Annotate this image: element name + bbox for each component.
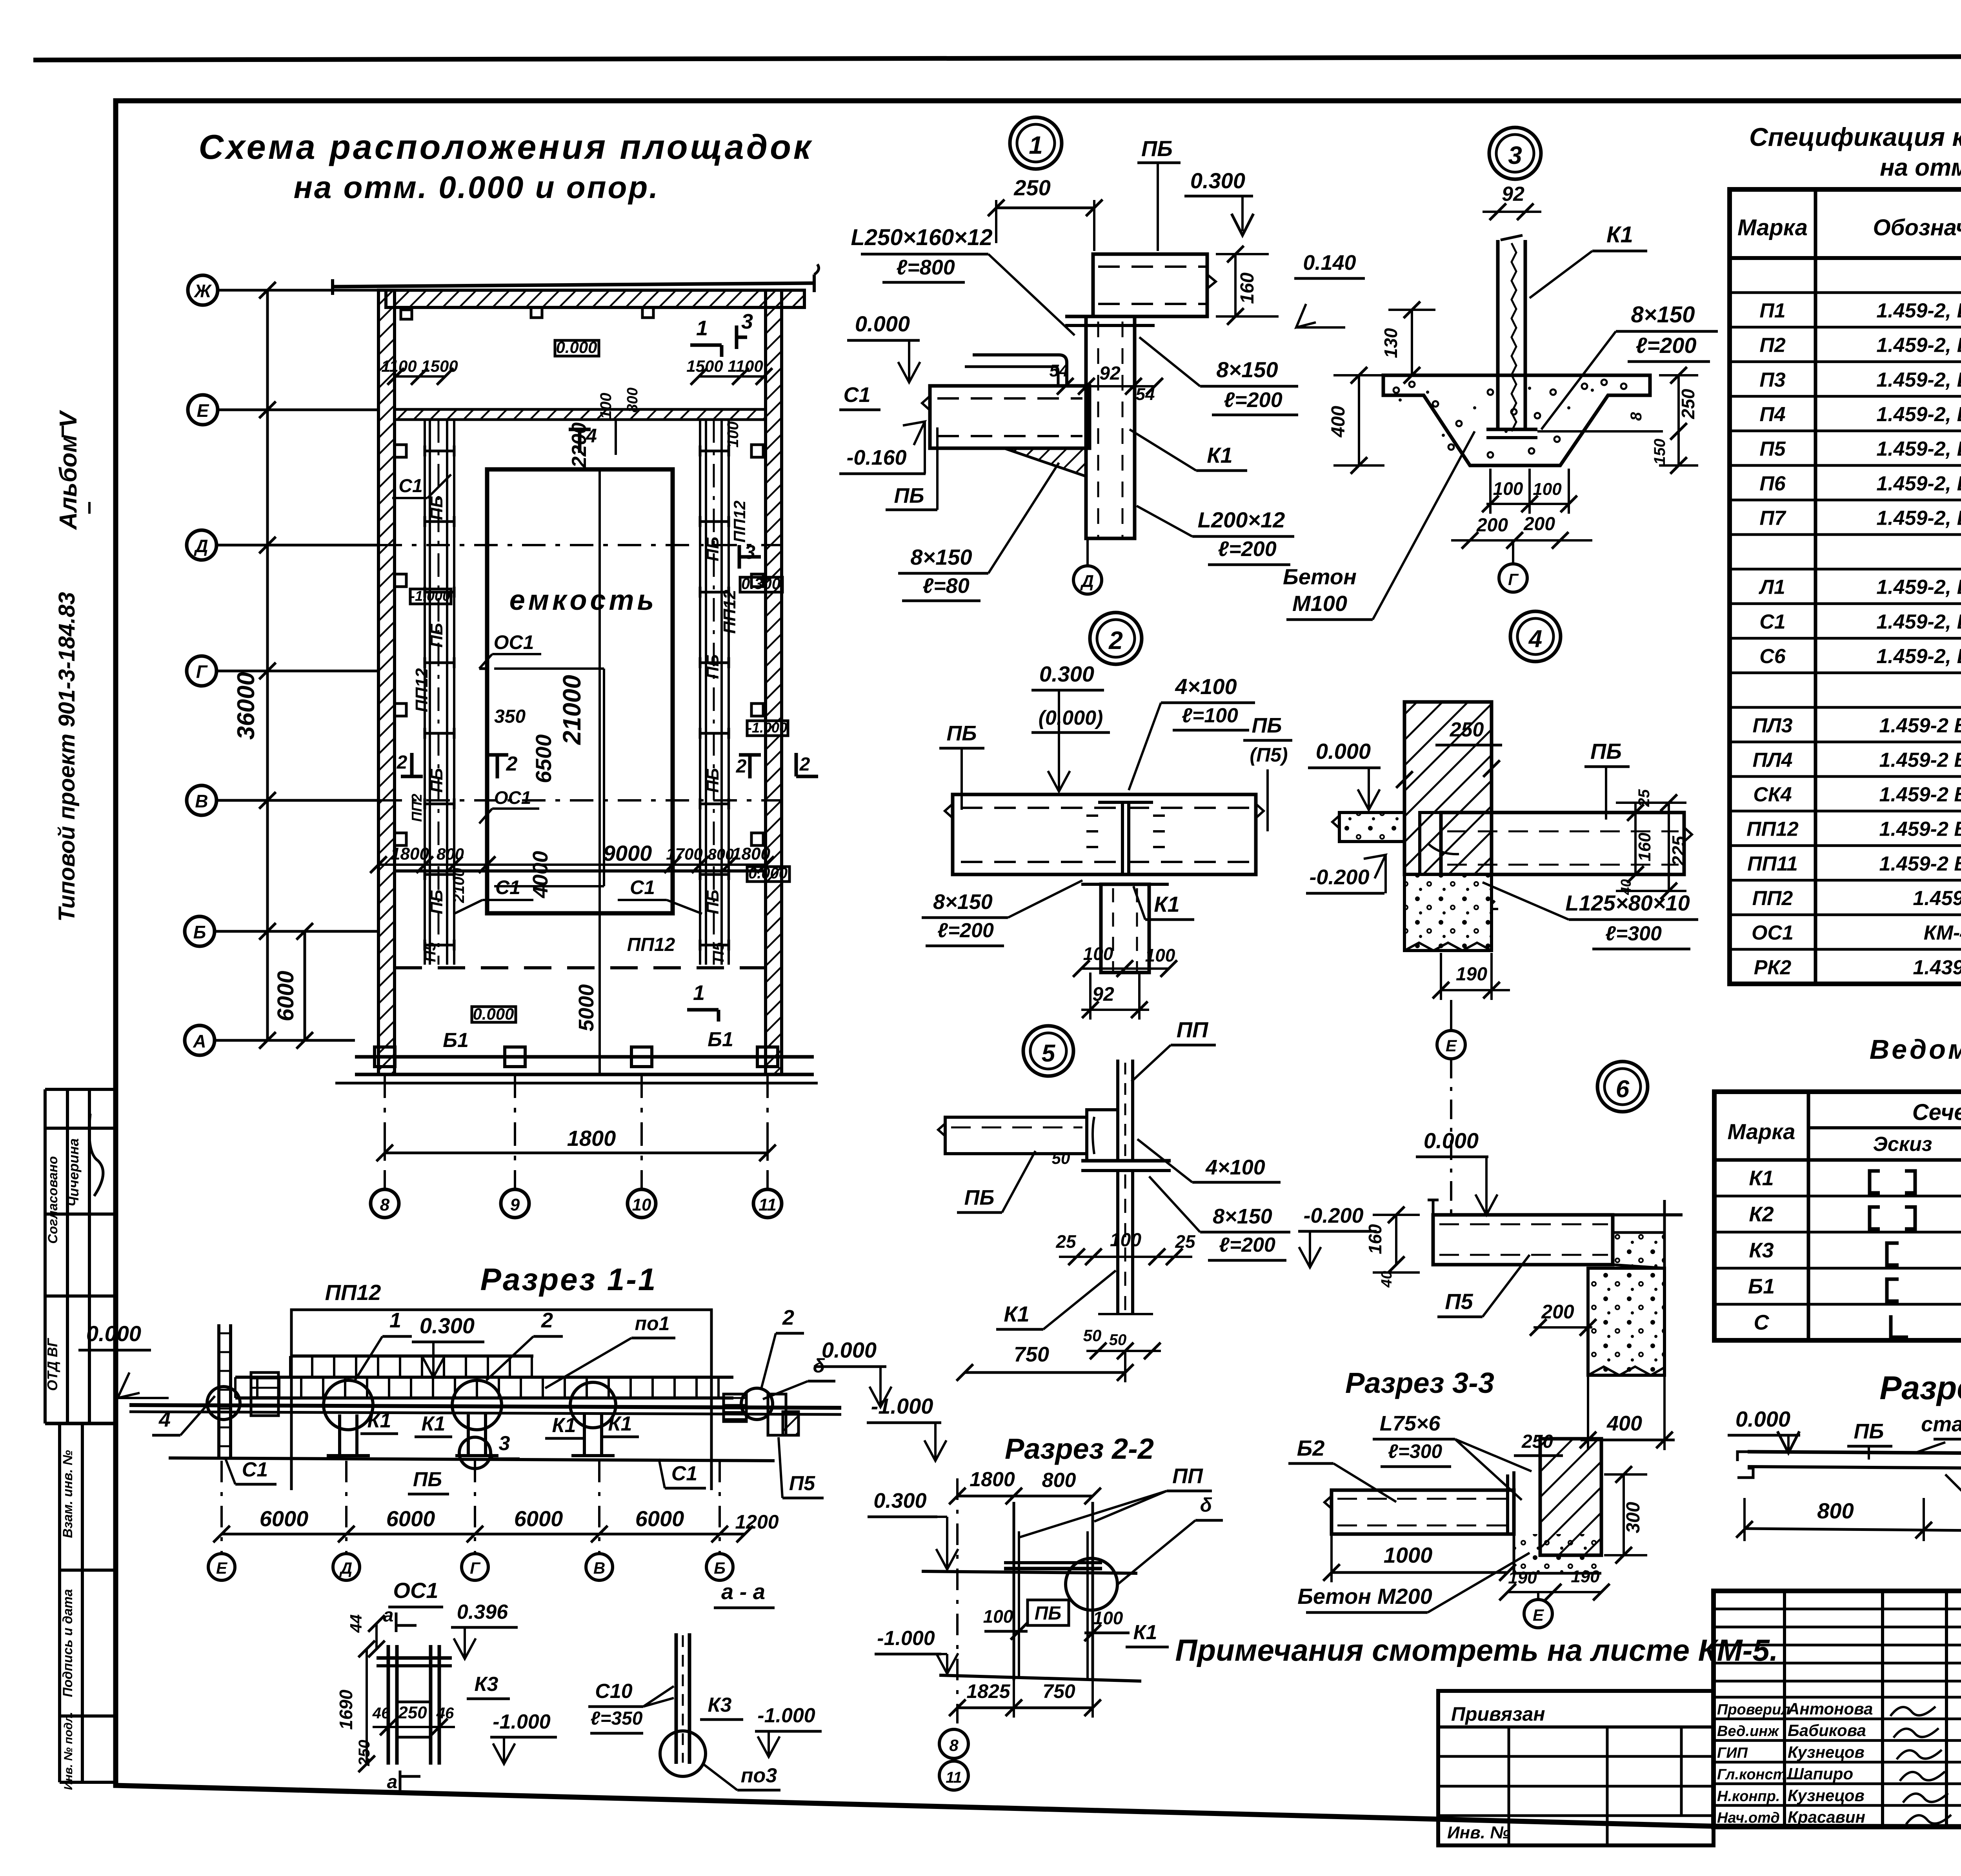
razrez 2-2 grid dash line xyxy=(956,1478,959,1723)
svg-text:6000: 6000 xyxy=(260,1506,309,1531)
svg-text:(0.000): (0.000) xyxy=(1039,707,1103,729)
razrez 2-2 bubbles 8 11 xyxy=(939,1729,968,1758)
svg-text:0.000: 0.000 xyxy=(473,1005,514,1023)
svg-text:П5: П5 xyxy=(422,942,439,962)
svg-text:ℓ=800: ℓ=800 xyxy=(896,256,955,279)
svg-text:1200: 1200 xyxy=(735,1511,779,1533)
razrez 1-1 bottom line xyxy=(169,1458,775,1461)
plan bottom beam B1 xyxy=(355,1055,814,1059)
svg-text:К1: К1 xyxy=(1207,443,1233,467)
svg-text:Нач.отд: Нач.отд xyxy=(1717,1810,1780,1826)
spec table frame xyxy=(1730,189,1961,984)
svg-text:С1: С1 xyxy=(630,876,655,898)
svg-text:L75×6: L75×6 xyxy=(1380,1412,1441,1435)
node6 dim 300 xyxy=(1623,1474,1625,1555)
svg-text:-0.200: -0.200 xyxy=(1309,865,1369,889)
OC1 cap plate xyxy=(377,1656,452,1660)
razrez 1-1 left step block xyxy=(251,1372,278,1416)
detail 5 bubble xyxy=(1023,1026,1073,1076)
svg-text:Б1: Б1 xyxy=(1748,1274,1775,1298)
svg-text:92: 92 xyxy=(1092,983,1114,1005)
svg-text:Взам. инв. №: Взам. инв. № xyxy=(60,1450,75,1538)
vedomost frame xyxy=(1714,1092,1961,1340)
svg-text:П6: П6 xyxy=(1759,472,1786,495)
svg-text:750: 750 xyxy=(1042,1680,1075,1702)
svg-text:36000: 36000 xyxy=(233,672,260,740)
detail 5 plate xyxy=(1081,1159,1171,1163)
svg-text:1800: 1800 xyxy=(567,1126,616,1151)
svg-text:ПБ: ПБ xyxy=(427,890,446,914)
razrez 1-1 floor line xyxy=(129,1405,841,1408)
svg-text:-1.000: -1.000 xyxy=(877,1627,935,1650)
plan grid leader lines xyxy=(218,289,378,292)
razrez 2-2 callout circle xyxy=(1066,1558,1117,1610)
svg-text:160: 160 xyxy=(1237,273,1258,304)
detail 1 gusset hatch xyxy=(1004,448,1086,476)
detail 2 weld ticks xyxy=(1086,814,1098,817)
razrez 1-1 checker platform xyxy=(235,1376,733,1379)
svg-text:а: а xyxy=(387,1772,398,1792)
svg-text:П7: П7 xyxy=(1759,507,1786,529)
razrez 3-3 concrete xyxy=(1613,1232,1664,1268)
svg-text:Типовой проект 901-3-184.83: Типовой проект 901-3-184.83 xyxy=(54,592,80,922)
razrez 1-1 upper checker row xyxy=(290,1354,533,1358)
svg-text:4×100: 4×100 xyxy=(1205,1156,1265,1179)
detail 4 concrete below xyxy=(1404,874,1492,951)
detail 1 column K1 xyxy=(1086,316,1135,538)
svg-text:ℓ=100: ℓ=100 xyxy=(1182,704,1238,727)
svg-text:1800: 1800 xyxy=(732,844,770,863)
svg-text:РК2: РК2 xyxy=(1754,956,1792,979)
svg-text:ПБ: ПБ xyxy=(1252,714,1282,737)
svg-text:ПБ: ПБ xyxy=(1854,1420,1884,1443)
svg-text:ПП11: ПП11 xyxy=(1747,853,1798,875)
svg-text:11: 11 xyxy=(946,1769,962,1786)
svg-text:1.459-2 Вып.2: 1.459-2 Вып.2 xyxy=(1879,783,1961,806)
svg-text:0.300: 0.300 xyxy=(1190,168,1245,193)
svg-text:1800: 1800 xyxy=(970,1468,1015,1491)
plan top wall lugs xyxy=(531,307,542,318)
razrez 1-1 K1 column stubs xyxy=(338,1414,341,1456)
svg-text:ПБ: ПБ xyxy=(894,484,924,507)
svg-text:Е: Е xyxy=(1533,1606,1544,1624)
detail 4 notch bracket xyxy=(1420,813,1441,874)
svg-text:ПБ: ПБ xyxy=(964,1186,994,1209)
svg-text:Г: Г xyxy=(470,1559,481,1577)
plan left wall (hatched) xyxy=(378,290,395,1074)
svg-text:ℓ=80: ℓ=80 xyxy=(922,574,969,598)
svg-text:0.000: 0.000 xyxy=(1316,739,1371,763)
svg-text:2: 2 xyxy=(541,1309,553,1332)
svg-text:ℓ=350: ℓ=350 xyxy=(591,1708,643,1729)
detail 3 column base plate xyxy=(1486,428,1537,431)
svg-text:Кузнецов: Кузнецов xyxy=(1788,1743,1865,1761)
svg-text:ℓ=200: ℓ=200 xyxy=(1224,388,1282,412)
svg-text:ПБ: ПБ xyxy=(1035,1603,1062,1624)
svg-text:0.000: 0.000 xyxy=(1424,1128,1479,1153)
svg-text:Кузнецов: Кузнецов xyxy=(1788,1786,1865,1805)
svg-text:6500: 6500 xyxy=(531,734,556,783)
svg-text:6000: 6000 xyxy=(514,1506,563,1531)
svg-text:1.459-2, Вып.1: 1.459-2, Вып.1 xyxy=(1876,334,1961,357)
svg-text:800: 800 xyxy=(624,387,641,412)
svg-text:8×150: 8×150 xyxy=(1213,1205,1272,1228)
svg-text:150: 150 xyxy=(1651,439,1668,465)
svg-text:ℓ=200: ℓ=200 xyxy=(1218,537,1277,561)
svg-text:Л1: Л1 xyxy=(1758,576,1785,599)
svg-text:1.459-2 Вып.2: 1.459-2 Вып.2 xyxy=(1879,714,1961,737)
plan bottom lower line xyxy=(335,1082,818,1085)
svg-text:Б1: Б1 xyxy=(443,1029,469,1052)
svg-text:Ведомость элементов: Ведомость элементов xyxy=(1870,1034,1961,1065)
svg-text:0.000: 0.000 xyxy=(1735,1407,1790,1431)
svg-text:К1: К1 xyxy=(422,1412,446,1435)
svg-text:190: 190 xyxy=(1571,1567,1600,1586)
svg-text:3: 3 xyxy=(741,310,753,333)
svg-text:В: В xyxy=(195,791,208,811)
svg-text:Е: Е xyxy=(1446,1036,1457,1055)
detail 3 footing concrete xyxy=(1383,375,1650,465)
svg-text:6000: 6000 xyxy=(386,1506,435,1531)
svg-text:190: 190 xyxy=(1508,1568,1537,1587)
svg-text:8×150: 8×150 xyxy=(1216,357,1278,382)
svg-text:0.300: 0.300 xyxy=(420,1313,475,1338)
svg-text:С1: С1 xyxy=(1759,611,1785,633)
svg-text:800: 800 xyxy=(1042,1469,1076,1492)
svg-text:400: 400 xyxy=(1606,1412,1642,1435)
svg-text:200: 200 xyxy=(1476,515,1508,536)
node6 E bubble xyxy=(1524,1600,1552,1628)
svg-text:1.459-2, Вып.1: 1.459-2, Вып.1 xyxy=(1876,507,1961,529)
svg-text:Шапиро: Шапиро xyxy=(1788,1765,1853,1783)
detail 3 concrete speckles xyxy=(1409,382,1415,387)
svg-text:КМ-4: КМ-4 xyxy=(1924,922,1961,944)
svg-text:ПП12: ПП12 xyxy=(627,934,675,955)
svg-text:250: 250 xyxy=(1678,389,1698,419)
svg-text:СК4: СК4 xyxy=(1753,783,1792,806)
svg-text:Д: Д xyxy=(339,1559,352,1577)
detail 5 post xyxy=(1116,1060,1119,1161)
left platform strip xyxy=(424,419,426,965)
svg-text:ПБ: ПБ xyxy=(413,1468,442,1491)
svg-text:ПБ: ПБ xyxy=(703,890,722,914)
detail 2 base plate xyxy=(1081,873,1169,876)
detail 5 bracket xyxy=(1087,1110,1118,1161)
svg-text:4×100: 4×100 xyxy=(1175,674,1237,699)
node6 concrete under xyxy=(1514,1534,1601,1573)
svg-text:ОС1: ОС1 xyxy=(393,1578,438,1603)
svg-text:1.459-2, Вып.1: 1.459-2, Вып.1 xyxy=(1876,645,1961,668)
svg-text:Схема расположения площадок: Схема расположения площадок xyxy=(198,127,813,166)
svg-text:С: С xyxy=(1754,1311,1770,1334)
razrez 1-1 callout circles xyxy=(324,1380,373,1430)
svg-text:ОТД ВГ: ОТД ВГ xyxy=(44,1338,60,1391)
svg-text:К1: К1 xyxy=(1606,222,1633,247)
svg-text:44: 44 xyxy=(347,1614,365,1633)
svg-text:L200×12: L200×12 xyxy=(1198,507,1285,532)
svg-text:Разрез 1-1: Разрез 1-1 xyxy=(480,1262,657,1297)
svg-text:Красавин: Красавин xyxy=(1788,1808,1865,1826)
svg-text:1690: 1690 xyxy=(336,1689,356,1730)
detail 4 beam xyxy=(1441,813,1684,874)
plan vertical dim 6000 xyxy=(304,931,306,1040)
detail 1 dim 160 right xyxy=(1234,254,1237,316)
svg-text:ПБ: ПБ xyxy=(703,654,722,679)
boxed elevation labels in plan xyxy=(555,340,599,356)
detail 3 dims right 250 150 xyxy=(1677,375,1680,431)
svg-text:Б2: Б2 xyxy=(1297,1436,1325,1460)
svg-text:100: 100 xyxy=(1145,945,1175,965)
svg-text:ПБ: ПБ xyxy=(427,768,446,793)
plan grid bubbles letters xyxy=(188,275,218,305)
inner dim box 6500/4000 lines xyxy=(494,667,604,670)
svg-text:ПБ: ПБ xyxy=(946,722,977,745)
svg-text:по1: по1 xyxy=(635,1312,670,1334)
svg-text:50: 50 xyxy=(1052,1149,1070,1167)
razrez 1-1 dim line 6000s xyxy=(222,1533,745,1536)
svg-text:Марка: Марка xyxy=(1737,215,1808,240)
svg-text:0.000: 0.000 xyxy=(86,1321,141,1346)
svg-text:1.459-2, Вып.1: 1.459-2, Вып.1 xyxy=(1876,576,1961,599)
svg-text:Разрез 3-3: Разрез 3-3 xyxy=(1345,1367,1494,1399)
razrez 1-1 left ladder C1 xyxy=(217,1324,220,1457)
svg-text:К1: К1 xyxy=(1154,892,1180,916)
svg-text:-1.000: -1.000 xyxy=(871,1394,933,1418)
detail 1 left beam xyxy=(930,386,1090,448)
svg-text:8×150: 8×150 xyxy=(933,890,993,914)
svg-text:6000: 6000 xyxy=(273,971,298,1021)
svg-text:1.459-2, Вып.1: 1.459-2, Вып.1 xyxy=(1876,369,1961,391)
svg-text:Разрез 4-4: Разрез 4-4 xyxy=(1879,1369,1961,1406)
svg-text:0.300: 0.300 xyxy=(873,1489,926,1512)
svg-text:ПП: ПП xyxy=(1172,1464,1203,1488)
svg-text:8: 8 xyxy=(380,1195,390,1214)
svg-text:200: 200 xyxy=(1523,514,1555,534)
plan right wall (hatched) xyxy=(766,290,782,1074)
svg-text:250: 250 xyxy=(1450,718,1484,741)
detail 1 column cap plate xyxy=(1065,315,1155,318)
svg-text:ПЛ4: ПЛ4 xyxy=(1752,749,1792,771)
svg-text:750: 750 xyxy=(1014,1343,1049,1366)
svg-text:ПБ: ПБ xyxy=(1141,136,1173,161)
svg-text:ГИП: ГИП xyxy=(1717,1745,1748,1761)
svg-text:1.459-2, Вып.1: 1.459-2, Вып.1 xyxy=(1876,472,1961,495)
svg-text:6: 6 xyxy=(1616,1076,1630,1103)
svg-text:2: 2 xyxy=(782,1306,794,1329)
plan dim 5000 center xyxy=(598,913,601,1074)
svg-text:Д: Д xyxy=(193,536,208,556)
svg-text:50: 50 xyxy=(1109,1331,1127,1349)
svg-text:ПП2: ПП2 xyxy=(409,794,425,822)
svg-text:1.459-2, Вып.1: 1.459-2, Вып.1 xyxy=(1876,438,1961,460)
detail 2 column xyxy=(1101,884,1149,973)
svg-text:Марка: Марка xyxy=(1728,1119,1795,1144)
svg-text:на отм. 0.000 и опор.: на отм. 0.000 и опор. xyxy=(294,170,660,205)
svg-text:ПП2: ПП2 xyxy=(1752,887,1793,910)
svg-text:1: 1 xyxy=(1029,131,1043,159)
svg-text:1.459-2 Вып.2: 1.459-2 Вып.2 xyxy=(1879,818,1961,841)
title block outer xyxy=(1714,1591,1961,1827)
tank rectangle xyxy=(487,469,673,913)
svg-text:Г: Г xyxy=(196,662,208,682)
svg-text:П3: П3 xyxy=(1759,369,1785,391)
svg-text:ПБ: ПБ xyxy=(1590,739,1622,763)
svg-text:Чичерина: Чичерина xyxy=(65,1138,82,1207)
razrez 3-3 dim 160 40 xyxy=(1395,1215,1397,1265)
detail 4 concrete floor left xyxy=(1339,813,1404,842)
detail 3 dim 130 xyxy=(1411,310,1413,375)
detail 3 grid G bubble xyxy=(1499,564,1527,592)
OC1 dims xyxy=(366,1649,368,1764)
plan top beam line xyxy=(333,283,814,287)
OC1 rungs xyxy=(397,1701,431,1703)
plan vertical dim 36000 xyxy=(266,290,269,1040)
plan top wall (hatched) xyxy=(386,290,804,307)
node6 beam xyxy=(1332,1490,1514,1534)
a-a bottom circle xyxy=(660,1731,706,1776)
razrez 2-2 floor lines xyxy=(922,1571,1137,1573)
svg-text:190: 190 xyxy=(1456,964,1487,985)
right platform strip xyxy=(699,419,701,965)
svg-text:8×150: 8×150 xyxy=(1631,302,1695,327)
svg-text:С1: С1 xyxy=(398,476,422,496)
svg-text:К1: К1 xyxy=(367,1409,391,1432)
razrez 1-1 grid bubbles E D G V B xyxy=(208,1554,235,1580)
svg-text:Привязан: Привязан xyxy=(1451,1703,1545,1725)
svg-text:3: 3 xyxy=(499,1432,510,1455)
svg-text:ℓ=300: ℓ=300 xyxy=(1605,922,1662,945)
detail 2 beam xyxy=(953,794,1256,874)
svg-text:а - а: а - а xyxy=(721,1579,765,1604)
OC1 ladder rails xyxy=(387,1645,390,1765)
svg-text:-1.000: -1.000 xyxy=(757,1704,815,1727)
svg-text:-1.000: -1.000 xyxy=(410,588,450,604)
svg-text:Обозначение: Обозначение xyxy=(1873,215,1961,240)
svg-text:Разрез 2-2: Разрез 2-2 xyxy=(1005,1432,1154,1465)
svg-text:2: 2 xyxy=(397,752,407,773)
svg-text:ПБ: ПБ xyxy=(703,537,722,562)
detail 1 bent plate path xyxy=(973,355,1067,386)
svg-text:ℓ=200: ℓ=200 xyxy=(1635,333,1696,358)
detail 2 T stiffener xyxy=(1098,793,1153,796)
svg-text:0.000: 0.000 xyxy=(556,338,597,356)
detail 4 grid E bubble xyxy=(1450,1000,1452,1031)
svg-text:П5: П5 xyxy=(789,1472,815,1495)
detail 1 grid D bubble xyxy=(1073,566,1102,594)
svg-text:на отм. 0.000; 7.200; 11.400: на отм. 0.000; 7.200; 11.400 и опор. xyxy=(1880,154,1961,181)
razrez 3-3 top slab line xyxy=(1608,1213,1683,1216)
svg-text:0.300: 0.300 xyxy=(741,575,780,593)
bottom grid bubbles 8-11 xyxy=(384,1074,386,1188)
svg-text:ОС1: ОС1 xyxy=(1752,922,1794,944)
svg-text:0.140: 0.140 xyxy=(1303,251,1356,274)
svg-text:L125×80×10: L125×80×10 xyxy=(1565,891,1690,915)
svg-text:1800: 1800 xyxy=(391,844,429,863)
detail 1 bubble xyxy=(1010,117,1062,169)
detail 3 column K1 xyxy=(1496,240,1500,429)
svg-text:3: 3 xyxy=(744,541,755,563)
svg-text:Е: Е xyxy=(216,1559,228,1577)
svg-text:3: 3 xyxy=(1508,141,1522,169)
svg-text:К3: К3 xyxy=(708,1694,732,1716)
svg-text:160: 160 xyxy=(1635,833,1654,862)
plan lower dashed line xyxy=(395,966,766,969)
svg-text:П5: П5 xyxy=(710,942,727,962)
wall lugs xyxy=(395,445,406,457)
svg-text:Спецификация к схемам располо: Спецификация к схемам расположения площа… xyxy=(1749,122,1961,151)
svg-text:1.459-2: 1.459-2 xyxy=(1913,887,1961,910)
svg-text:ПБ: ПБ xyxy=(427,496,446,520)
svg-text:1000: 1000 xyxy=(1384,1543,1433,1567)
svg-text:ПП12: ПП12 xyxy=(720,589,739,634)
plan row B floor line xyxy=(395,869,766,873)
svg-text:800: 800 xyxy=(1817,1498,1854,1523)
svg-text:ОС1: ОС1 xyxy=(494,631,534,653)
svg-text:Вед.инж: Вед.инж xyxy=(1717,1723,1779,1740)
svg-text:100: 100 xyxy=(983,1606,1013,1627)
svg-text:Сечение: Сечение xyxy=(1912,1100,1961,1125)
svg-text:92: 92 xyxy=(1099,363,1121,384)
svg-text:1825: 1825 xyxy=(966,1680,1010,1702)
torn page top edge line xyxy=(33,56,1961,60)
detail 2 bubble xyxy=(1090,613,1142,664)
svg-text:160: 160 xyxy=(1365,1224,1385,1254)
svg-text:100: 100 xyxy=(597,393,615,419)
svg-text:-0.200: -0.200 xyxy=(1303,1204,1363,1227)
svg-text:25: 25 xyxy=(1635,789,1653,807)
svg-text:Ж: Ж xyxy=(194,281,212,301)
svg-text:1700: 1700 xyxy=(666,845,702,863)
svg-text:10: 10 xyxy=(632,1195,651,1214)
svg-text:300: 300 xyxy=(1623,1502,1644,1533)
svg-text:К2: К2 xyxy=(1749,1202,1774,1226)
left margin stamp table lower xyxy=(58,1423,61,1782)
svg-text:2: 2 xyxy=(799,754,810,775)
detail 3 bubble xyxy=(1489,127,1541,179)
svg-text:1500 1100: 1500 1100 xyxy=(686,357,763,375)
razrez 3-3 beam xyxy=(1433,1215,1613,1265)
svg-text:К3: К3 xyxy=(1749,1238,1774,1262)
svg-text:Проверил: Проверил xyxy=(1717,1701,1790,1718)
plan row E wall band (hatched) xyxy=(395,409,766,420)
svg-text:Гл.конст.: Гл.конст. xyxy=(1717,1767,1790,1783)
svg-text:ПП12: ПП12 xyxy=(412,668,431,712)
svg-text:130: 130 xyxy=(1381,328,1401,358)
svg-text:Подпись и дата: Подпись и дата xyxy=(60,1589,75,1697)
svg-text:11: 11 xyxy=(759,1195,777,1214)
svg-text:М100: М100 xyxy=(1292,591,1347,616)
svg-text:К1: К1 xyxy=(1133,1621,1157,1644)
svg-text:Г: Г xyxy=(1508,570,1519,589)
svg-text:Эскиз: Эскиз xyxy=(1873,1133,1932,1156)
svg-text:9: 9 xyxy=(510,1195,520,1214)
svg-text:Бетон М200: Бетон М200 xyxy=(1297,1584,1432,1609)
svg-text:ПЛ3: ПЛ3 xyxy=(1752,714,1792,737)
svg-text:С1: С1 xyxy=(843,383,870,407)
detail 3 dim 400 xyxy=(1358,375,1360,465)
razrez 2-2 posts xyxy=(1013,1502,1015,1680)
svg-text:25: 25 xyxy=(1175,1231,1196,1252)
svg-text:К1: К1 xyxy=(1749,1166,1774,1190)
svg-text:Инв. № подл.: Инв. № подл. xyxy=(62,1712,75,1790)
razrez 1-1 bracket rectangle xyxy=(291,1310,711,1490)
svg-text:1.459-2, Вып.1: 1.459-2, Вып.1 xyxy=(1876,611,1961,633)
svg-text:1.459-2 Вып.2: 1.459-2 Вып.2 xyxy=(1879,853,1961,875)
svg-text:Б1: Б1 xyxy=(708,1028,733,1051)
svg-text:225: 225 xyxy=(1668,835,1689,866)
svg-text:Бабикова: Бабикова xyxy=(1788,1721,1866,1740)
svg-text:Согласовано: Согласовано xyxy=(45,1156,60,1244)
